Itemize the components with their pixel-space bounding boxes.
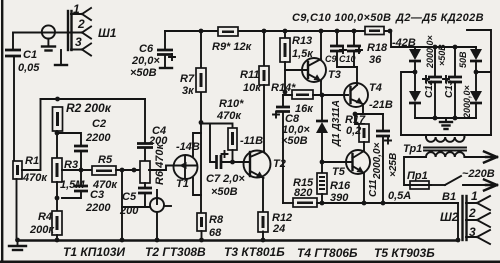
svg-text:820: 820 xyxy=(294,187,313,199)
resistor R9 xyxy=(218,27,238,36)
transistor T3 xyxy=(302,58,326,82)
svg-text:С9,С10 100,0×50В: С9,С10 100,0×50В xyxy=(292,12,391,24)
svg-text:-21В: -21В xyxy=(369,99,393,111)
svg-text:R7: R7 xyxy=(180,73,195,85)
diode D4 left bottom xyxy=(409,91,421,102)
capacitor C12 xyxy=(434,47,436,76)
wire primary right arrow xyxy=(464,156,486,158)
svg-text:470к: 470к xyxy=(22,172,48,184)
svg-text:В1: В1 xyxy=(442,191,456,203)
svg-text:×50В: ×50В xyxy=(437,44,447,66)
wire T3 collector xyxy=(320,31,322,59)
top rail xyxy=(165,31,415,47)
capacitor C4 xyxy=(137,144,153,148)
FIRST STAGE xyxy=(9,92,458,250)
bridge side taps xyxy=(413,70,418,75)
svg-text:Т5: Т5 xyxy=(332,166,346,178)
svg-text:~220В: ~220В xyxy=(462,168,495,180)
resistor R10 xyxy=(228,128,237,150)
capacitor C5 xyxy=(144,183,146,187)
svg-text:Т4 ГТ806Б: Т4 ГТ806Б xyxy=(297,246,358,260)
svg-text:10к: 10к xyxy=(243,82,262,94)
svg-text:С7 2,0×: С7 2,0× xyxy=(206,173,245,185)
capacitor C1 xyxy=(12,33,14,49)
switch V1 xyxy=(431,184,445,186)
svg-text:×50В: ×50В xyxy=(211,186,238,198)
svg-text:R2 200к: R2 200к xyxy=(66,101,112,115)
wire T5 base xyxy=(322,161,352,163)
scan border left xyxy=(1,0,3,263)
node R11 xyxy=(262,29,267,34)
capacitor C2 xyxy=(74,146,88,151)
resistor R5 xyxy=(92,166,116,175)
svg-text:R16: R16 xyxy=(330,180,351,192)
svg-text:Д2—Д5 КД202В: Д2—Д5 КД202В xyxy=(395,12,484,24)
ground main xyxy=(15,238,20,243)
jack circle xyxy=(150,198,164,212)
svg-text:C6: C6 xyxy=(139,43,154,55)
pin 1 xyxy=(71,8,91,20)
wire T1 source down xyxy=(193,178,201,195)
scan border bottom xyxy=(0,261,500,263)
wire y207 xyxy=(122,206,150,208)
ground Sh1 xyxy=(55,64,67,66)
svg-text:R6 470к: R6 470к xyxy=(154,143,166,185)
ground bridge xyxy=(445,118,447,121)
svg-text:2000,0×: 2000,0× xyxy=(372,142,383,180)
svg-text:200к: 200к xyxy=(29,224,55,236)
svg-text:Д1 Д311А: Д1 Д311А xyxy=(331,100,342,147)
output node y114 xyxy=(355,113,383,115)
svg-text:Т1: Т1 xyxy=(176,178,189,190)
svg-text:2000,0×: 2000,0× xyxy=(425,34,435,69)
transistor T1 xyxy=(174,155,198,179)
svg-text:2200: 2200 xyxy=(85,202,111,214)
resistor R15 xyxy=(293,198,317,207)
wire T1 drain up xyxy=(193,133,201,156)
svg-text:470к: 470к xyxy=(92,179,118,191)
svg-text:R10*: R10* xyxy=(219,98,244,110)
wire T4 collector xyxy=(356,67,358,85)
diode D2 xyxy=(414,47,416,49)
ground bus xyxy=(18,239,459,241)
svg-text:0,05: 0,05 xyxy=(18,62,40,74)
transformer Tr1 primary xyxy=(426,152,464,157)
svg-text:×25В: ×25В xyxy=(388,153,399,177)
pin 2 out xyxy=(466,213,490,227)
node R13 xyxy=(283,29,288,34)
resistor R16 xyxy=(321,162,323,173)
svg-text:C1: C1 xyxy=(23,49,37,61)
capacitor C8 xyxy=(276,107,290,112)
wire R10 tap xyxy=(201,124,233,129)
svg-text:R11: R11 xyxy=(240,69,259,81)
shield circle xyxy=(42,25,55,38)
svg-text:470к: 470к xyxy=(216,110,242,122)
svg-text:Т1 КП103И: Т1 КП103И xyxy=(63,245,125,259)
svg-text:Ш2: Ш2 xyxy=(440,210,459,224)
svg-text:C2: C2 xyxy=(92,118,106,130)
svg-text:2: 2 xyxy=(77,17,85,31)
ground shield xyxy=(42,45,55,47)
wire T4 base xyxy=(322,94,348,96)
wire T3 emitter xyxy=(320,81,322,95)
resistor R18 xyxy=(365,27,384,35)
svg-text:С9: С9 xyxy=(325,54,337,64)
svg-text:3к: 3к xyxy=(182,85,195,97)
node drain xyxy=(199,120,204,125)
diode D1 xyxy=(321,95,323,120)
svg-text:R1: R1 xyxy=(25,155,39,167)
svg-text:C5: C5 xyxy=(122,191,137,203)
transistor T5 xyxy=(346,150,370,174)
svg-text:-14В: -14В xyxy=(176,141,200,153)
svg-text:24: 24 xyxy=(272,223,285,235)
wire R2-R3 xyxy=(56,131,58,158)
diode D5 right bottom xyxy=(470,91,482,102)
svg-text:R18: R18 xyxy=(367,42,388,54)
svg-text:R4: R4 xyxy=(38,211,52,223)
wire C4 drop xyxy=(144,99,146,143)
svg-text:R9* 12к: R9* 12к xyxy=(212,41,253,53)
INPUT SECTION xyxy=(5,2,117,161)
svg-text:-42В: -42В xyxy=(392,37,416,49)
svg-text:Т4: Т4 xyxy=(369,82,382,94)
wire T4 emitter xyxy=(362,104,364,114)
pin 2 xyxy=(82,27,91,39)
pin 3 out xyxy=(466,230,490,244)
MIDDLE xyxy=(130,27,415,242)
wire mid y170 xyxy=(62,169,92,171)
node R2 top xyxy=(55,97,60,102)
capacitor C9 xyxy=(335,29,340,34)
svg-text:Т3 КТ801Б: Т3 КТ801Б xyxy=(224,245,285,259)
wire out y203 xyxy=(317,202,458,204)
resistor R13 xyxy=(284,31,286,38)
connector Sh2 xyxy=(461,196,463,240)
bridge top wire xyxy=(415,46,476,48)
wire bus y97 xyxy=(41,98,146,100)
svg-text:1: 1 xyxy=(73,2,80,16)
svg-text:Т5 КТ903Б: Т5 КТ903Б xyxy=(374,246,435,260)
pin 1 out xyxy=(466,196,490,210)
wire R5 right xyxy=(116,169,141,171)
svg-text:С12: С12 xyxy=(424,79,435,98)
diode D3 right top xyxy=(475,47,477,49)
wire R1 tap xyxy=(22,99,41,170)
wire gate xyxy=(149,169,166,171)
resistor R2 xyxy=(53,107,63,131)
svg-text:2000,0×: 2000,0× xyxy=(462,84,472,119)
resistor R6 xyxy=(144,149,146,162)
wire R1 bottom xyxy=(16,179,18,240)
resistor R1 xyxy=(13,161,22,179)
CAPTIONS xyxy=(63,245,435,260)
box bottom xyxy=(401,134,491,136)
svg-text:3: 3 xyxy=(75,35,82,49)
svg-text:С10: С10 xyxy=(339,54,356,64)
wire T5 emitter xyxy=(363,173,365,203)
capacitor C11 xyxy=(382,114,384,130)
OUTPUT xyxy=(283,12,458,207)
pin 3 xyxy=(71,44,91,56)
svg-text:0,2: 0,2 xyxy=(346,125,361,137)
capacitor C3 xyxy=(80,170,82,185)
svg-text:R5: R5 xyxy=(98,154,113,166)
resistor R4 xyxy=(52,211,62,235)
svg-text:1: 1 xyxy=(471,189,478,203)
svg-text:R8: R8 xyxy=(209,214,224,226)
transformer Tr1 secondary xyxy=(426,137,464,142)
svg-text:3: 3 xyxy=(469,225,476,239)
svg-text:С11: С11 xyxy=(368,179,379,197)
wire ground to Sh2 xyxy=(457,203,459,240)
svg-text:0,5А: 0,5А xyxy=(388,190,411,202)
svg-text:2: 2 xyxy=(468,206,476,220)
svg-text:-11В: -11В xyxy=(240,135,263,147)
wire R3 bottom xyxy=(56,182,58,211)
svg-text:20,0×: 20,0× xyxy=(131,55,160,67)
svg-text:×50В: ×50В xyxy=(130,67,157,79)
wire T2 collector xyxy=(263,85,265,152)
svg-text:×50В: ×50В xyxy=(281,135,308,147)
svg-text:R13: R13 xyxy=(292,35,312,47)
resistor R17 xyxy=(355,114,364,124)
wire input top xyxy=(13,32,82,34)
resistor R3 xyxy=(52,158,62,182)
svg-text:68: 68 xyxy=(209,227,222,239)
transistor T2 xyxy=(244,151,271,178)
capacitor C7 xyxy=(217,155,222,169)
POWER xyxy=(365,12,497,244)
capacitor C10 xyxy=(352,29,357,34)
wire T2 emitter xyxy=(262,178,264,212)
wire feedback down xyxy=(121,170,123,240)
svg-text:С13: С13 xyxy=(444,79,455,98)
resistor R8 xyxy=(200,92,202,213)
transistor T4 xyxy=(344,83,368,107)
core xyxy=(424,148,466,151)
node R7 xyxy=(199,29,204,34)
wire caps join xyxy=(337,66,357,68)
connector Sh1 xyxy=(67,11,69,50)
wire Sh1 bottom to ground xyxy=(60,50,62,64)
wire R13 bottom / base T3 xyxy=(284,62,286,95)
svg-text:Тр1: Тр1 xyxy=(403,143,422,155)
resistor R7 xyxy=(200,31,202,68)
svg-text:Пр1: Пр1 xyxy=(407,170,428,182)
capacitor C13 xyxy=(454,47,456,76)
svg-text:Т2 ГТ308В: Т2 ГТ308В xyxy=(145,245,206,259)
wire C2 top tap xyxy=(57,133,81,145)
wire primary left xyxy=(404,157,426,185)
svg-text:2200: 2200 xyxy=(85,132,111,144)
resistor R12 xyxy=(258,212,268,232)
fuse Pr1 xyxy=(410,181,429,189)
wire shield down xyxy=(47,39,49,47)
capacitor C6 xyxy=(164,31,166,49)
wire C7 drop xyxy=(210,124,216,163)
bridge bottom wire xyxy=(415,117,476,119)
svg-text:Т3: Т3 xyxy=(328,69,341,81)
svg-text:36: 36 xyxy=(369,54,382,66)
resistor R11 xyxy=(263,31,265,66)
svg-text:50В: 50В xyxy=(458,51,468,68)
svg-text:Ш1: Ш1 xyxy=(98,26,117,40)
